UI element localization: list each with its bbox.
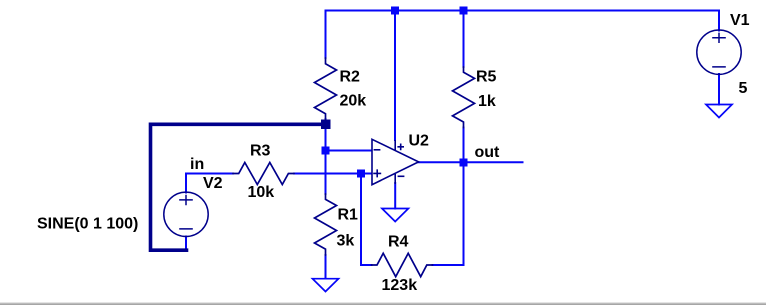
wire top rail: [326, 10, 720, 12]
svg-text:V1: V1: [730, 12, 750, 29]
junction node out: [460, 159, 468, 167]
wire inverting input: [326, 150, 372, 152]
svg-text:R3: R3: [250, 143, 271, 160]
svg-text:R1: R1: [338, 207, 359, 224]
wire op-amp V- to ground: [394, 183, 396, 209]
resistor R3: [233, 163, 294, 185]
ground below R1: [313, 279, 339, 292]
svg-text:R2: R2: [340, 69, 361, 86]
wire V2 top lead: [185, 174, 187, 193]
svg-text:5: 5: [739, 80, 748, 97]
op-amp U2: [372, 139, 419, 184]
junction node noninverting input / R4: [357, 170, 365, 178]
wire V2 to R3: [186, 173, 233, 175]
resistor R5: [453, 67, 475, 128]
wire op-amp V+ supply: [394, 11, 396, 141]
wire V2 bottom lead: [185, 237, 187, 251]
voltage source V1: [697, 30, 741, 74]
voltage source V2: [164, 192, 208, 236]
svg-text:in: in: [190, 156, 204, 173]
wire node to R4 left: [361, 174, 372, 266]
junction node V+ rail / R5: [460, 7, 468, 15]
status bar edge: [0, 302, 766, 303]
svg-text:U2: U2: [409, 133, 430, 150]
junction node inverting input: [322, 147, 330, 155]
junction thick wire at R2/R1 node: [321, 120, 331, 130]
wire R4 right to out node: [433, 163, 464, 266]
svg-text:out: out: [475, 144, 501, 161]
wire R5 top lead: [463, 11, 465, 68]
svg-text:10k: 10k: [248, 184, 275, 201]
svg-text:3k: 3k: [337, 233, 355, 250]
svg-text:1k: 1k: [478, 93, 496, 110]
svg-text:R5: R5: [476, 69, 497, 86]
wire R2 bottom to R1 top: [325, 119, 327, 194]
svg-text:SINE(0 1 100): SINE(0 1 100): [37, 216, 138, 233]
ground below V1: [706, 105, 732, 118]
svg-text:R4: R4: [388, 234, 409, 251]
svg-text:20k: 20k: [340, 93, 367, 110]
wire output stub: [419, 161, 523, 163]
ground below op-amp: [382, 209, 408, 222]
wire thick feedback (V2- to R2/R1 node): [151, 124, 326, 250]
wire R5 bottom to out node: [463, 128, 465, 163]
wire R2 top: [325, 11, 327, 59]
svg-text:V2: V2: [203, 175, 223, 192]
junction node V+ rail / op-amp supply: [391, 7, 399, 15]
op-amp U2 input/supply polarity marks: [373, 140, 404, 184]
svg-text:123k: 123k: [382, 277, 418, 294]
resistor R4: [372, 253, 433, 276]
wire V1 top lead: [718, 11, 720, 31]
wire V1 bottom to ground: [718, 74, 720, 105]
wire R1 bottom to ground: [325, 255, 327, 279]
resistor R2: [315, 58, 337, 120]
wire R3 to noninverting input: [294, 173, 372, 175]
resistor R1: [315, 194, 337, 255]
